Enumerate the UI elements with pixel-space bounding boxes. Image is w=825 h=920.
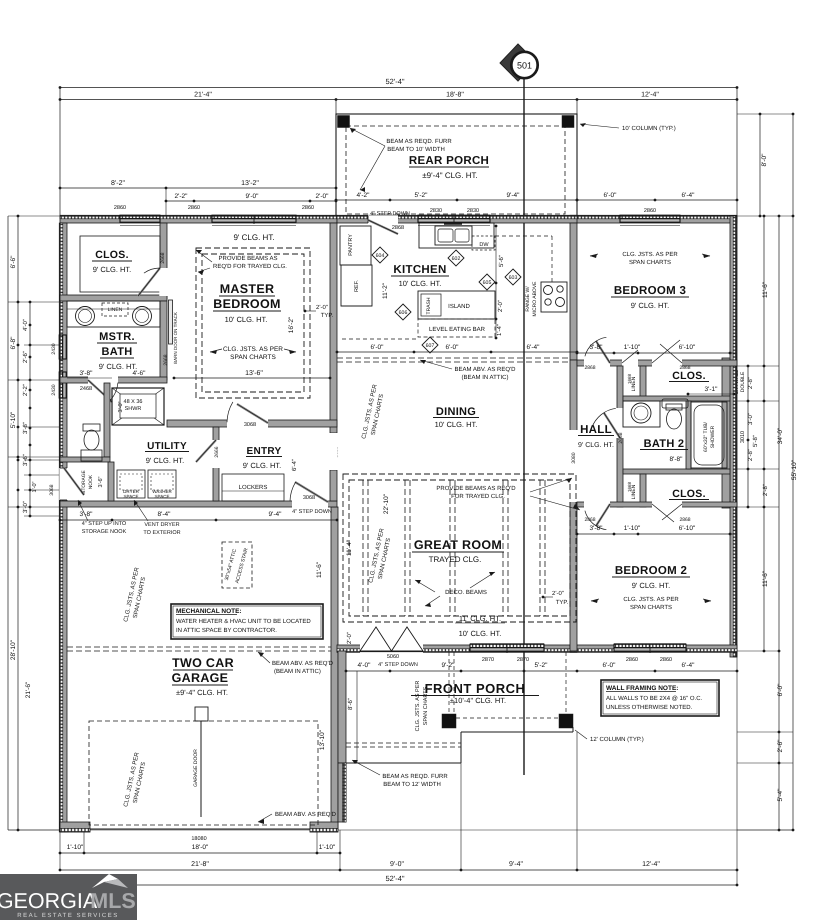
svg-text:5'-6": 5'-6" [498,255,505,267]
svg-text:TRAYED CLG.: TRAYED CLG. [429,555,482,564]
svg-text:LINEN: LINEN [108,307,123,313]
left extension ticks [8,215,60,217]
svg-text:ALL WALLS TO BE 2X4 @ 16" O.C.: ALL WALLS TO BE 2X4 @ 16" O.C. [606,695,703,702]
svg-text:18'-8": 18'-8" [446,92,464,99]
door tag 604 [372,247,388,263]
svg-text:3010: 3010 [740,431,746,443]
front porch beam dashed [346,742,461,744]
svg-text:2'-0": 2'-0" [552,590,564,597]
svg-text:501: 501 [517,61,532,71]
svg-text:2'-6": 2'-6" [777,739,784,753]
svg-text:REAL ESTATE SERVICES: REAL ESTATE SERVICES [17,912,118,919]
utility washer [148,470,176,498]
svg-text:DOUBLE: DOUBLE [740,371,746,392]
bedroom3 south wall [577,360,737,366]
svg-text:MICRO ABOVE: MICRO ABOVE [532,281,538,317]
bath south wall [60,377,167,383]
svg-text:9' CLG. HT.: 9' CLG. HT. [632,581,671,590]
svg-text:3'-8": 3'-8" [590,344,604,351]
svg-text:FOR TRAYED CLG.: FOR TRAYED CLG. [451,493,505,500]
svg-text:8'-2": 8'-2" [111,180,125,187]
svg-text:CLOS.: CLOS. [672,488,706,500]
master bedroom windows 2860x2 [212,215,296,219]
svg-text:2860: 2860 [626,657,638,663]
door tag 605 [479,274,495,290]
wc cabinet [81,450,102,461]
garage bottom wall left post [60,822,90,832]
svg-text:2668: 2668 [160,252,166,263]
svg-text:GARAGE: GARAGE [172,671,229,685]
svg-text:TWO CAR: TWO CAR [172,656,234,670]
master tray ceiling dashed [196,248,310,398]
svg-text:2'-8": 2'-8" [747,377,754,389]
svg-text:9' CLG. HT.: 9' CLG. HT. [243,461,282,470]
svg-text:BEAM AS REQD. FURR: BEAM AS REQD. FURR [386,138,452,145]
svg-text:2430: 2430 [51,343,57,354]
svg-text:12'-4": 12'-4" [642,861,660,868]
closet east wall upper [160,223,167,299]
svg-text:12' COLUMN (TYP.): 12' COLUMN (TYP.) [590,736,644,743]
svg-text:BEAM TO 12' WIDTH: BEAM TO 12' WIDTH [383,781,441,788]
svg-text:WALL FRAMING NOTE:: WALL FRAMING NOTE: [606,685,678,692]
svg-text:CLG. JSTS. AS PER: CLG. JSTS. AS PER [415,681,421,732]
svg-text:2'-8": 2'-8" [747,449,754,461]
svg-text:UTILITY: UTILITY [147,441,187,452]
right dim vertical lines [747,366,749,507]
svg-text:1'-10": 1'-10" [67,844,84,851]
svg-text:18080: 18080 [191,836,206,842]
svg-text:52'-4": 52'-4" [385,874,404,883]
svg-text:2'-6": 2'-6" [22,351,29,363]
svg-text:MLS: MLS [90,889,135,913]
kitchen windows 2830x2 [418,215,490,219]
bath2 mirror [662,399,688,408]
svg-text:2430: 2430 [51,384,57,395]
svg-text:9' CLG. HT.: 9' CLG. HT. [99,362,138,371]
svg-text:BEAM ABV. AS REQ'D: BEAM ABV. AS REQ'D [275,811,337,818]
svg-text:5'-2": 5'-2" [415,192,429,199]
entry east wall lower [330,470,337,501]
svg-text:2868: 2868 [584,365,595,371]
rear porch outline [336,114,577,217]
svg-text:MSTR.: MSTR. [99,331,135,343]
wall framing note box [601,680,719,716]
svg-text:2'-0": 2'-0" [316,304,328,311]
siding top wall left wing [60,215,337,219]
left door leaf [64,468,84,495]
svg-text:605: 605 [483,280,492,286]
svg-text:9' CLG. HT.: 9' CLG. HT. [93,265,132,274]
svg-text:GREAT ROOM: GREAT ROOM [414,538,502,552]
svg-text:TRASH: TRASH [426,297,432,314]
garage door line [200,721,202,817]
kitchen vertical dim line [495,226,497,338]
svg-text:2868: 2868 [679,517,690,523]
bottom extension lines [59,830,61,870]
svg-text:SPACE: SPACE [124,494,139,499]
svg-text:BEDROOM: BEDROOM [213,297,280,311]
svg-text:CLG. JSTS. AS PER: CLG. JSTS. AS PER [622,251,678,258]
entry exterior door leaf [295,482,328,502]
siding garage bottom right [310,828,338,832]
hall east wall [617,366,623,507]
svg-text:13'-2": 13'-2" [241,180,259,187]
bedroom2 clos door leaf [652,504,674,522]
svg-text:2'-2": 2'-2" [22,384,29,396]
svg-text:8'-6": 8'-6" [347,698,354,710]
svg-text:18'-0": 18'-0" [192,844,209,851]
svg-text:5'-8": 5'-8" [752,435,759,447]
svg-text:2870: 2870 [517,657,529,663]
GeorgiaMLS logo [0,874,137,920]
svg-text:4" STEP DOWN: 4" STEP DOWN [378,662,418,668]
wc toilet [83,424,100,431]
entry exterior door gap [292,500,328,507]
svg-text:9'-4": 9'-4" [269,511,283,518]
entry-master door leaf 3068 [237,404,268,423]
svg-text:1'-10": 1'-10" [319,844,336,851]
svg-text:2860: 2860 [660,657,672,663]
svg-text:2'-0": 2'-0" [316,193,330,200]
svg-text:603: 603 [509,275,518,281]
svg-text:6'-0": 6'-0" [446,344,460,351]
svg-text:REAR PORCH: REAR PORCH [409,155,489,167]
svg-text:SPAN CHARTS: SPAN CHARTS [230,354,276,361]
svg-text:BATH 2: BATH 2 [644,438,685,450]
svg-text:BEAM ABV. AS REQ'D: BEAM ABV. AS REQ'D [455,366,517,373]
garage door sill [90,828,310,830]
svg-text:BARN DOOR ON TRACK: BARN DOOR ON TRACK [173,312,178,364]
siding bedroom2 front wall [570,649,737,653]
front porch outline [346,762,461,764]
svg-text:6'-0": 6'-0" [777,683,784,697]
kitchen east wall [570,223,577,360]
svg-text:TYP.: TYP. [556,599,569,606]
svg-text:9'-4": 9'-4" [509,861,523,868]
bedroom2 door leaf [596,504,610,526]
mechanical note box [171,604,323,639]
porch left wall stub [338,651,346,763]
master east / kitchen west wall [330,223,337,433]
svg-text:SPAN CHARTS: SPAN CHARTS [630,604,672,611]
island [418,291,495,319]
svg-text:2830: 2830 [430,208,442,214]
svg-text:11'-6": 11'-6" [762,281,769,298]
svg-text:SHOWER: SHOWER [710,425,716,448]
dining west wall gap [329,433,337,470]
bath door leaf 2468 [88,380,112,402]
svg-text:STORAGE: STORAGE [81,470,87,493]
great room windows 2870x2 [470,644,544,648]
svg-text:KITCHEN: KITCHEN [393,264,446,276]
door tag 602 [448,250,464,266]
top extension lines [59,88,61,217]
kitchen dining beam dashed [337,357,570,359]
svg-text:11'-2": 11'-2" [382,282,389,299]
lockers [222,474,284,501]
wc south wall [60,457,110,462]
svg-text:REF.: REF. [354,280,360,292]
svg-text:1'-10": 1'-10" [624,344,641,351]
svg-text:52'-4": 52'-4" [385,77,404,86]
svg-text:1668: 1668 [627,481,632,492]
svg-text:606: 606 [399,310,408,316]
kitchen sink [435,226,472,245]
great room french door opening [360,644,423,652]
garage right wall [331,507,338,830]
garage bottom wall right post [310,822,338,832]
bottom baseline y=830 [8,829,793,831]
svg-text:28'-10": 28'-10" [10,639,17,660]
svg-text:1'-0": 1'-0" [32,481,38,492]
svg-text:FRONT PORCH: FRONT PORCH [425,681,526,696]
svg-text:9' CLG. HT.: 9' CLG. HT. [146,456,185,465]
garage right wall lower [338,763,346,822]
closet shelving rect [80,236,160,292]
svg-text:11'-4": 11'-4" [346,539,353,556]
svg-text:11' CLG. HT.: 11' CLG. HT. [459,614,501,623]
svg-text:±9'-4" CLG. HT.: ±9'-4" CLG. HT. [176,688,228,697]
svg-text:2830: 2830 [467,208,479,214]
utility dryer [117,470,145,498]
bedroom3 door leaf [596,341,610,363]
fridge [341,265,372,306]
left exterior wall [60,223,67,832]
svg-text:11'-6": 11'-6" [316,561,323,578]
door tag 603 [505,269,521,285]
svg-text:±10'-4" CLG. HT.: ±10'-4" CLG. HT. [450,696,506,705]
svg-text:9' CLG. HT.: 9' CLG. HT. [631,301,670,310]
garage slab dashed [89,721,318,825]
svg-text:BEDROOM 3: BEDROOM 3 [614,285,686,297]
svg-text:3'-6": 3'-6" [22,454,29,466]
svg-text:6'-0": 6'-0" [603,662,617,669]
left wall door 3068 gap [59,468,67,500]
bedroom2 front wall [570,645,737,652]
svg-text:2860: 2860 [114,205,126,211]
svg-text:2868: 2868 [392,225,404,231]
svg-text:3'-0": 3'-0" [22,501,29,513]
svg-text:DW: DW [479,242,489,248]
svg-text:6'-8": 6'-8" [10,336,17,350]
counter dashed left of island [342,338,418,340]
svg-text:1668: 1668 [627,373,632,384]
garage beam dashed [67,646,331,648]
svg-text:10' CLG. HT.: 10' CLG. HT. [399,279,442,288]
svg-text:3'-1": 3'-1" [705,386,719,393]
closet door gap [159,268,167,296]
svg-text:60"x32" TUB/: 60"x32" TUB/ [703,421,709,451]
barn door on track [169,300,173,344]
svg-text:2860: 2860 [644,208,656,214]
svg-text:(BEAM IN ATTIC): (BEAM IN ATTIC) [462,374,509,381]
svg-text:LEVEL EATING BAR: LEVEL EATING BAR [429,326,486,333]
front porch column right [559,714,573,728]
svg-text:4'-0": 4'-0" [22,319,29,331]
svg-text:CLG. JSTS. AS PER: CLG. JSTS. AS PER [223,346,283,353]
svg-text:3'-0": 3'-0" [118,401,124,412]
svg-text:55'-10": 55'-10" [791,459,798,480]
svg-text:SPAN CHARTS: SPAN CHARTS [423,686,429,725]
svg-text:13'-6": 13'-6" [245,370,263,377]
bath2 south wall [623,469,730,474]
svg-text:3'-8": 3'-8" [590,525,604,532]
svg-text:SHWR: SHWR [125,406,142,412]
rear porch column right [562,116,574,128]
svg-text:2666: 2666 [214,446,220,457]
svg-text:2870: 2870 [482,657,494,663]
svg-text:6'-0": 6'-0" [371,344,385,351]
svg-text:3'-6": 3'-6" [98,476,104,487]
svg-text:8'-8": 8'-8" [670,456,684,463]
kitchen entry door gap [368,215,398,223]
hall west wall [570,360,577,651]
svg-text:SPAN CHARTS: SPAN CHARTS [629,259,671,266]
bath2 north wall [623,396,730,401]
master south wall / entry north wall [167,420,337,427]
svg-text:10' CLG. HT.: 10' CLG. HT. [435,420,478,429]
bedroom2 windows 2860x2 [614,644,686,648]
svg-text:2668: 2668 [163,354,169,365]
svg-text:4'-0": 4'-0" [358,662,372,669]
svg-text:2'-2": 2'-2" [175,193,189,200]
svg-text:PANTRY: PANTRY [348,234,354,256]
svg-text:SPACE: SPACE [155,494,170,499]
front porch column left [442,714,456,728]
great room tray outer [343,474,576,622]
svg-text:607: 607 [426,343,435,349]
svg-text:8'-4": 8'-4" [158,511,172,518]
door tag 606 [395,304,411,320]
svg-text:BEDROOM 2: BEDROOM 2 [615,565,687,577]
svg-text:2468: 2468 [80,386,92,392]
svg-text:34'-0": 34'-0" [777,427,784,444]
svg-text:22'-10": 22'-10" [383,493,390,514]
upper cabinets dashed [495,235,552,237]
range [541,282,567,312]
siding right exterior wall [733,216,737,657]
section line 501 vertical [523,78,525,775]
kitchen door leaf [368,220,398,234]
great room deco beams [362,480,364,616]
bedroom3 window 2860 [620,215,680,219]
svg-text:1'-4": 1'-4" [496,324,503,336]
wc window 2430 [59,372,63,398]
svg-text:6'-6": 6'-6" [10,255,17,269]
svg-text:PROVIDE BEAMS AS REQ'D: PROVIDE BEAMS AS REQ'D [436,485,516,492]
svg-text:HALL: HALL [580,424,612,436]
svg-text:6'-10": 6'-10" [679,344,696,351]
kitchen counter [419,223,494,248]
svg-text:ENTRY: ENTRY [246,446,281,457]
svg-text:REQ'D FOR TRAYED CLG.: REQ'D FOR TRAYED CLG. [213,263,287,270]
clos door leaf upper [652,340,680,363]
vanity sink left [76,307,95,326]
svg-text:2860: 2860 [302,205,314,211]
svg-text:STORAGE NOOK: STORAGE NOOK [82,529,127,535]
svg-text:3'-0": 3'-0" [747,413,754,425]
bath2 door leaf [604,413,620,438]
linen east wall upper [640,366,646,401]
svg-text:9'-4": 9'-4" [507,192,521,199]
svg-text:10' CLG. HT.: 10' CLG. HT. [225,315,268,324]
mstr bath window 2430 [59,335,63,359]
svg-text:2'-8": 2'-8" [762,484,769,496]
svg-text:5'-10": 5'-10" [10,411,17,428]
svg-text:TO EXTERIOR: TO EXTERIOR [143,530,180,536]
svg-text:4" STEP DOWN: 4" STEP DOWN [292,509,332,515]
svg-text:5'-2": 5'-2" [535,662,549,669]
front porch dashed beams [448,652,450,714]
svg-text:21'-4": 21'-4" [194,92,212,99]
utility east wall [213,427,219,501]
window sills [120,225,160,227]
svg-text:4'-6": 4'-6" [133,370,147,377]
route shield 501 [500,44,536,81]
svg-text:BEAM TO 10' WIDTH: BEAM TO 10' WIDTH [387,146,445,153]
svg-text:2'-0": 2'-0" [346,632,353,644]
svg-text:4" STEP UP INTO: 4" STEP UP INTO [82,521,127,527]
siding great room front wall [337,649,577,653]
svg-text:2860: 2860 [188,205,200,211]
siding left exterior wall [59,223,63,832]
great room front wall [337,645,577,652]
mstr bath vanity [67,301,160,327]
svg-text:10' CLG. HT.: 10' CLG. HT. [459,629,502,638]
bath east wall [160,301,167,380]
svg-text:9' CLG. HT.: 9' CLG. HT. [233,233,274,242]
svg-text:CLG. JSTS. AS PER: CLG. JSTS. AS PER [623,596,679,603]
svg-text:6'-10": 6'-10" [679,525,696,532]
svg-text:12'-4": 12'-4" [641,92,659,99]
svg-text:DINING: DINING [436,406,476,418]
svg-text:21'-8": 21'-8" [191,861,209,868]
svg-text:BEAM ABV. AS REQ'D: BEAM ABV. AS REQ'D [272,660,334,667]
svg-text:3080: 3080 [571,452,577,463]
svg-text:21'-6": 21'-6" [25,681,32,698]
bath2 toilet [666,404,682,410]
svg-text:9'-2": 9'-2" [442,662,456,669]
svg-text:±9'-4" CLG. HT.: ±9'-4" CLG. HT. [422,171,477,180]
svg-text:5060: 5060 [387,654,399,660]
shower enclosure [112,388,164,425]
svg-text:13'-10": 13'-10" [319,729,326,750]
svg-text:6'-4": 6'-4" [682,192,696,199]
siding garage bottom left [60,828,90,832]
svg-text:2'-0": 2'-0" [497,300,504,312]
svg-text:6'-4": 6'-4" [527,344,541,351]
siding top wall kitchen [337,215,577,219]
pantry [340,226,371,265]
svg-text:3'-8": 3'-8" [80,370,94,377]
attic access dashed [222,542,252,588]
linen dashed box [102,303,128,316]
rear porch inner dashed [346,126,565,214]
bath2 tub [691,402,727,468]
svg-text:2868: 2868 [584,517,595,523]
door tag 607 [422,337,438,353]
svg-text:GARAGE DOOR: GARAGE DOOR [193,749,199,787]
bedroom2 north wall [577,502,737,507]
svg-text:(BEAM IN ATTIC): (BEAM IN ATTIC) [274,668,321,675]
top wall left wing [60,216,337,223]
svg-text:NOOK: NOOK [88,474,94,489]
svg-text:IN ATTIC SPACE BY CONTRACTOR.: IN ATTIC SPACE BY CONTRACTOR. [176,627,277,634]
svg-text:9'-0": 9'-0" [246,193,260,200]
svg-text:DECO. BEAMS: DECO. BEAMS [445,589,487,596]
svg-text:3068: 3068 [49,484,55,495]
right exterior wall [730,216,737,657]
